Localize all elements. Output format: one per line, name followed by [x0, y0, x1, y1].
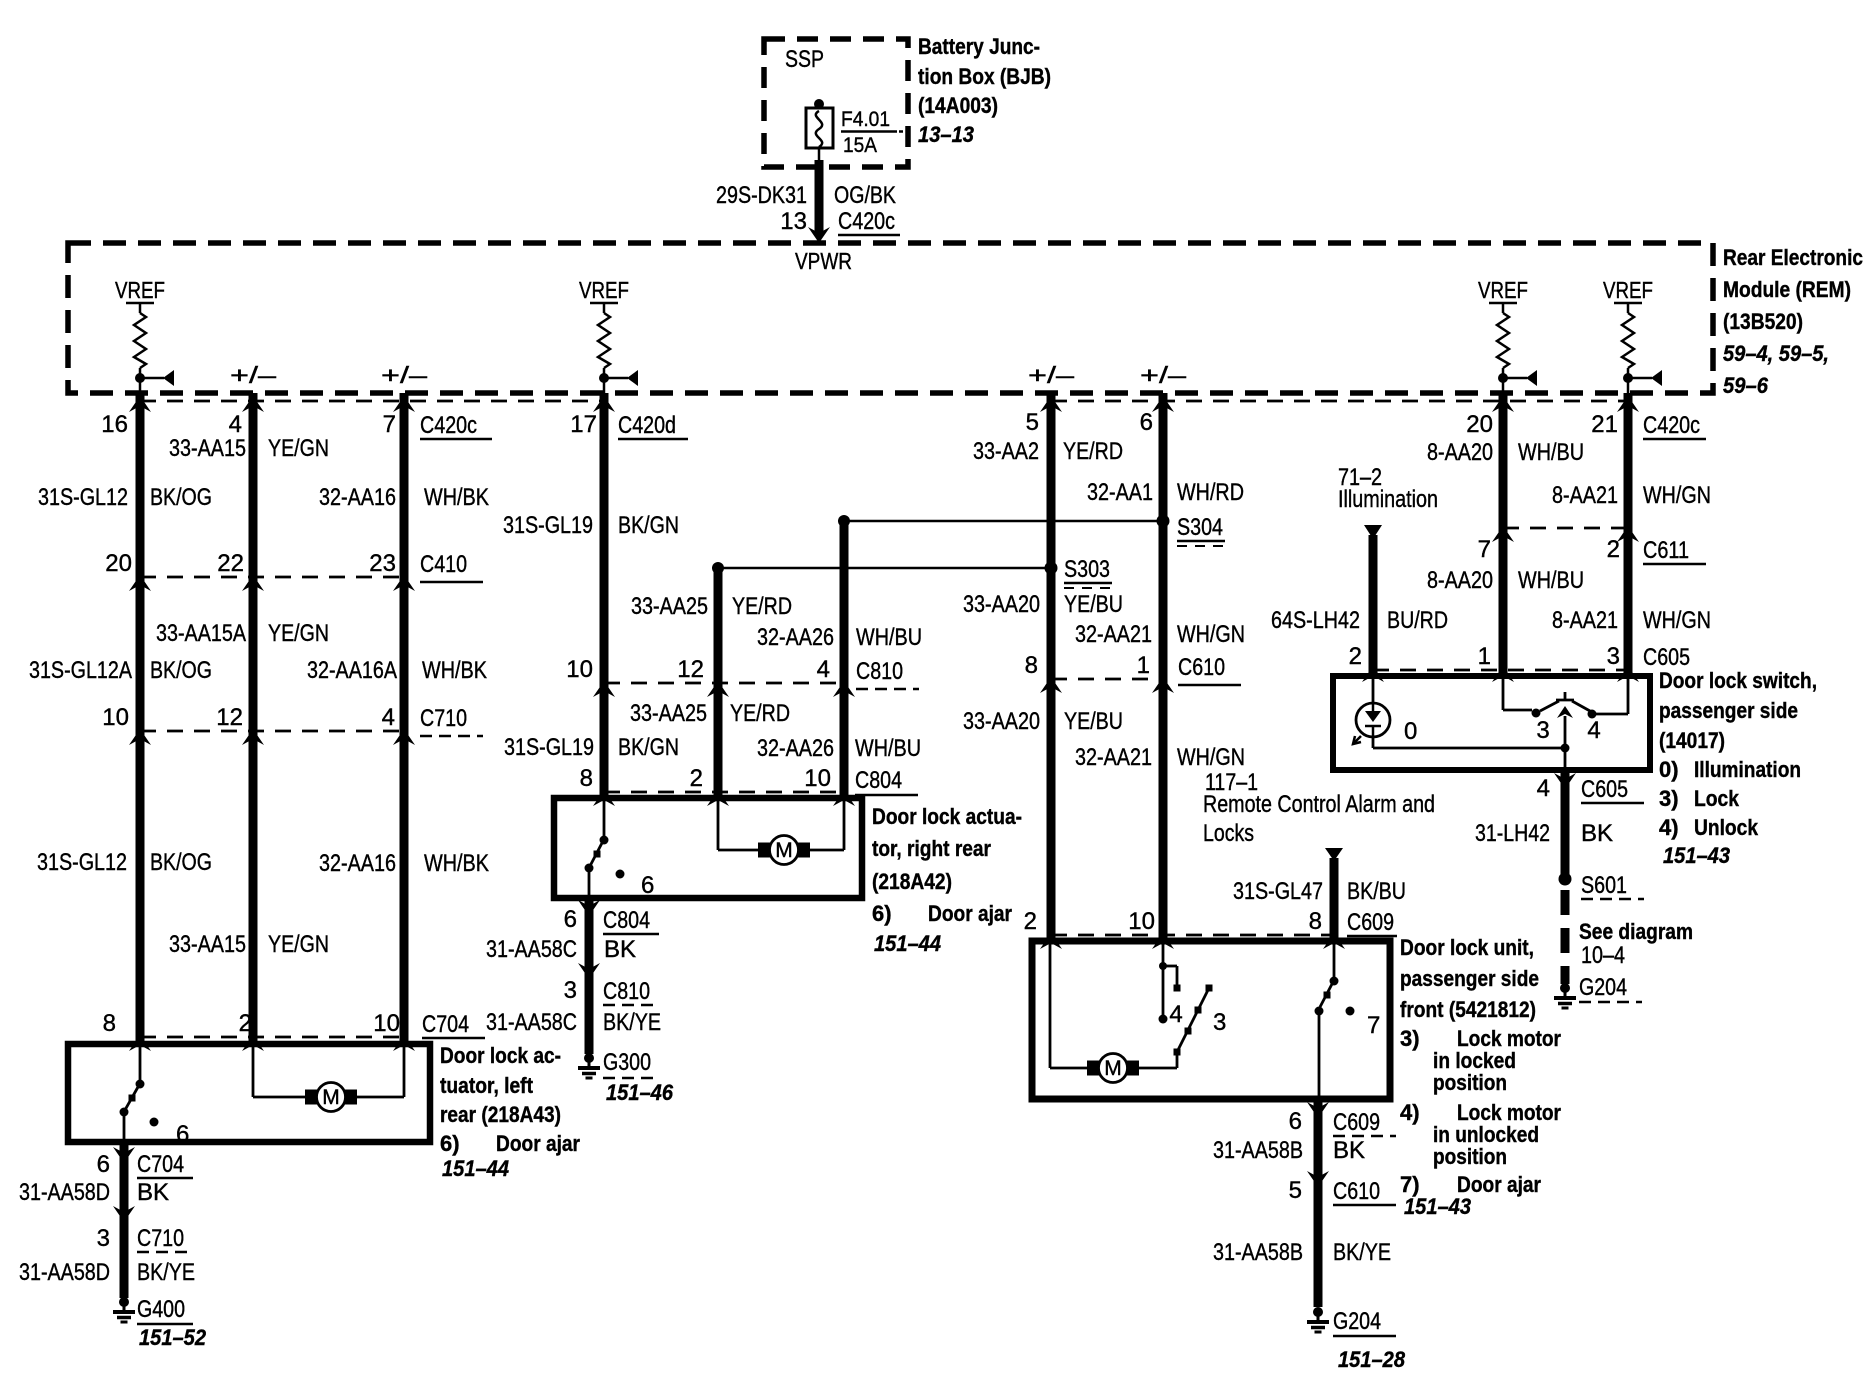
Rear Electronic Module (REM) dashed box [68, 243, 1713, 393]
BJB label text [918, 34, 1051, 147]
connector C610 pin arrow [1040, 677, 1062, 693]
svg-text:WH/BU: WH/BU [855, 735, 921, 762]
svg-text:32-AA16A: 32-AA16A [307, 657, 397, 684]
svg-text:BK/BU: BK/BU [1347, 878, 1406, 905]
svg-text:VPWR: VPWR [795, 248, 852, 274]
svg-text:4: 4 [1169, 1001, 1182, 1028]
svg-text:31S-GL47: 31S-GL47 [1233, 878, 1323, 905]
svg-text:4: 4 [1537, 775, 1550, 802]
svg-text:BK/YE: BK/YE [603, 1009, 661, 1036]
connector C609 pin arrow [1323, 933, 1345, 949]
svg-text:+/–: +/– [381, 362, 427, 388]
wire labels 31S-GL12A BK/OG, 32-AA16A WH/BK [29, 657, 487, 684]
svg-text:rear (218A43): rear (218A43) [440, 1102, 561, 1127]
wire 29S-DK31 OG/BK from fuse to VPWR [818, 148, 821, 236]
svg-text:6): 6) [872, 901, 892, 926]
connector C810 pin 3 arrow [578, 963, 600, 979]
svg-text:33-AA25: 33-AA25 [631, 593, 708, 620]
connector C710 pin arrow [242, 729, 264, 745]
svg-text:BK/YE: BK/YE [137, 1259, 195, 1286]
svg-text:C704: C704 [422, 1011, 469, 1038]
svg-text:3): 3) [1659, 786, 1679, 811]
connector C710 dashed line [140, 730, 404, 733]
wire labels 33-AA25 YE/RD [631, 593, 792, 620]
svg-text:8: 8 [103, 1010, 116, 1037]
svg-text:151–52: 151–52 [139, 1325, 207, 1350]
svg-text:OG/BK: OG/BK [834, 182, 896, 209]
svg-text:21: 21 [1591, 411, 1618, 438]
connector C410 pin arrow [242, 575, 264, 591]
svg-text:10–4: 10–4 [1581, 942, 1625, 969]
svg-text:31S-GL19: 31S-GL19 [504, 734, 594, 761]
wire 31-AA58C BK ground lead (middle) [585, 898, 594, 1054]
svg-text:BK: BK [604, 936, 636, 963]
door lock switch label text [1659, 668, 1817, 868]
svg-text:17: 17 [570, 411, 597, 438]
svg-text:32-AA16: 32-AA16 [319, 484, 396, 511]
wire 8-AA21 WH/GN (REM pin 21) [1624, 393, 1633, 676]
REM +/- driver output label [1140, 362, 1186, 388]
svg-text:Illumination: Illumination [1694, 757, 1801, 782]
wire 31S-GL47 BK/BU with terminal [1325, 848, 1343, 941]
svg-text:Door lock ac-: Door lock ac- [440, 1043, 561, 1068]
svg-text:S601: S601 [1581, 872, 1627, 899]
svg-text:3: 3 [564, 977, 577, 1004]
svg-text:C610: C610 [1178, 654, 1225, 681]
ground G300 [578, 1049, 674, 1105]
svg-text:6: 6 [1140, 409, 1153, 436]
connector C704 pin 6 arrow [113, 1147, 135, 1163]
pin labels C420c left: 16 4 7 [101, 411, 492, 439]
connector arrow into VPWR rail [808, 227, 830, 243]
wire labels 31S-GL19 BK/GN, 32-AA26 WH/BU (lower) [504, 734, 921, 762]
labels 3 C810 / 31-AA58C BK/YE [486, 977, 661, 1036]
svg-text:5: 5 [1026, 409, 1039, 436]
svg-text:BK: BK [1581, 820, 1613, 847]
connector C410 pin arrow [393, 575, 415, 591]
svg-text:8-AA20: 8-AA20 [1427, 439, 1493, 466]
node VPWR [795, 248, 852, 274]
svg-text:32-AA1: 32-AA1 [1087, 479, 1153, 506]
ground G204 (front) [1307, 1307, 1406, 1372]
door lock actuator, left rear (218A43) box [68, 1044, 430, 1142]
svg-text:6: 6 [564, 906, 577, 933]
wire labels 32-AA21 WH/GN [1075, 621, 1245, 648]
connector C611 dashed line [1503, 527, 1628, 530]
wire 32-AA16 WH/BK (REM pin 7 lock motor feed) [400, 393, 409, 1044]
connector C704 pin arrow [242, 1035, 264, 1051]
labels 6 C804 / 31-AA58C BK [486, 906, 659, 963]
wire labels 33-AA15A YE/GN [156, 620, 329, 647]
svg-text:13–13: 13–13 [918, 122, 974, 147]
svg-text:WH/GN: WH/GN [1643, 482, 1711, 509]
connector C610 pin arrow [1152, 677, 1174, 693]
pin labels 5 6 [1026, 409, 1153, 436]
svg-text:20: 20 [1466, 411, 1493, 438]
svg-text:BK/OG: BK/OG [150, 657, 212, 684]
svg-text:6: 6 [97, 1151, 110, 1178]
wire 31-AA58D BK ground lead (left) [120, 1142, 129, 1298]
pin labels C611: 7 2 [1478, 536, 1706, 564]
svg-text:YE/GN: YE/GN [268, 620, 329, 647]
wire 32-AA1/32-AA21 WH/RD-WH/GN (REM pin 6) [1159, 393, 1168, 941]
splice S601 [1559, 872, 1645, 899]
svg-text:Lock: Lock [1694, 786, 1740, 811]
connector C804 pin arrow [593, 790, 615, 806]
wire label 29S-DK31 13 / OG/BK C420c [716, 182, 900, 235]
connector C420d pin arrow [593, 396, 615, 412]
labels 6 C609 / 31-AA58B BK [1213, 1108, 1396, 1164]
svg-text:31S-GL12A: 31S-GL12A [29, 657, 132, 684]
door lock unit label text [1400, 935, 1561, 1219]
wire labels 33-AA2 YE/RD [973, 438, 1123, 465]
svg-text:32-AA16: 32-AA16 [319, 850, 396, 877]
svg-text:8: 8 [1025, 652, 1038, 679]
wire 8-AA20 WH/BU (REM pin 20) [1499, 393, 1508, 676]
svg-text:7: 7 [1478, 536, 1491, 563]
svg-text:(14A003): (14A003) [918, 93, 998, 118]
svg-text:4): 4) [1400, 1100, 1420, 1125]
pin labels C609: 2 10 8 [1024, 908, 1397, 936]
pin labels C610: 8 1 [1025, 652, 1241, 685]
svg-text:15A: 15A [843, 134, 877, 157]
svg-text:8-AA20: 8-AA20 [1427, 567, 1493, 594]
connector C609 dashed line [1051, 934, 1334, 937]
svg-text:+/–: +/– [230, 362, 276, 388]
svg-text:VREF: VREF [579, 277, 629, 303]
svg-text:Door lock actua-: Door lock actua- [872, 804, 1022, 829]
VREF pull-up resistor, REM pin 21 [1603, 277, 1662, 393]
svg-text:8: 8 [580, 765, 593, 792]
svg-text:passenger side: passenger side [1400, 966, 1539, 991]
connector C420c pin arrow [393, 396, 415, 412]
svg-text:WH/RD: WH/RD [1177, 479, 1244, 506]
connector C710 pin arrow [129, 729, 151, 745]
svg-text:31-AA58B: 31-AA58B [1213, 1239, 1303, 1266]
connector C410 pin arrow [129, 575, 151, 591]
splice S304 [1157, 514, 1226, 546]
svg-text:4): 4) [1659, 815, 1679, 840]
connector C605 pin 4 arrow [1554, 773, 1576, 789]
svg-text:Unlock: Unlock [1694, 815, 1759, 840]
svg-text:C605: C605 [1643, 644, 1690, 671]
svg-text:C420c: C420c [1643, 412, 1700, 439]
labels 3 C710 / 31-AA58D BK/YE [19, 1225, 195, 1286]
svg-text:BK/YE: BK/YE [1333, 1239, 1391, 1266]
svg-text:1: 1 [1137, 652, 1150, 679]
svg-text:33-AA15: 33-AA15 [169, 931, 246, 958]
svg-text:31-AA58C: 31-AA58C [486, 936, 577, 963]
svg-text:WH/GN: WH/GN [1177, 744, 1245, 771]
connector C605 dashed line [1373, 669, 1628, 672]
svg-text:YE/BU: YE/BU [1064, 591, 1123, 618]
svg-text:151–44: 151–44 [874, 931, 941, 956]
wire labels 8-AA21 WH/GN (lower) [1552, 607, 1711, 634]
wire labels 8-AA21 WH/GN [1552, 482, 1711, 509]
svg-text:Door lock unit,: Door lock unit, [1400, 935, 1534, 960]
wire 33-AA25 YE/RD from splice branch [714, 568, 723, 798]
connector line C420c/C420d below REM (left) [140, 400, 604, 403]
wire labels 8-AA20 WH/BU (lower) [1427, 567, 1584, 594]
svg-text:3: 3 [1607, 643, 1620, 670]
svg-text:8-AA21: 8-AA21 [1552, 607, 1618, 634]
svg-text:tuator, left: tuator, left [440, 1073, 534, 1098]
svg-text:3: 3 [1213, 1009, 1226, 1036]
pin labels C804: 8 2 10 [580, 765, 918, 795]
svg-text:12: 12 [216, 704, 243, 731]
svg-text:(13B520): (13B520) [1723, 309, 1803, 334]
svg-text:C710: C710 [137, 1225, 184, 1252]
svg-text:2: 2 [1349, 643, 1362, 670]
connector C704 dashed line [140, 1036, 404, 1039]
wire labels 31S-GL12 BK/OG, 32-AA16 WH/BK [38, 484, 489, 511]
wire 32-AA26 WH/BU from splice branch [840, 521, 849, 798]
svg-text:YE/GN: YE/GN [268, 931, 329, 958]
connector C610 dashed line [1051, 678, 1163, 681]
svg-text:31S-GL12: 31S-GL12 [37, 849, 127, 876]
svg-text:151–44: 151–44 [442, 1156, 509, 1181]
svg-text:SSP: SSP [785, 46, 824, 73]
svg-text:32-AA21: 32-AA21 [1075, 744, 1152, 771]
wire labels 64S-LH42 BU/RD [1271, 607, 1448, 634]
door ajar switch contact 6 (right rear) [585, 798, 655, 899]
svg-text:3: 3 [1536, 717, 1549, 744]
svg-text:10: 10 [373, 1010, 400, 1037]
svg-text:6: 6 [176, 1121, 189, 1148]
pin labels C710: 10 12 4 [102, 704, 483, 736]
svg-text:8: 8 [1309, 908, 1322, 935]
svg-text:position: position [1433, 1070, 1507, 1095]
svg-text:151–43: 151–43 [1404, 1194, 1471, 1219]
connector C611 pin arrow [1617, 526, 1639, 542]
svg-text:7: 7 [1367, 1012, 1380, 1039]
svg-text:WH/BU: WH/BU [1518, 567, 1584, 594]
svg-text:33-AA20: 33-AA20 [963, 591, 1040, 618]
svg-text:1: 1 [1478, 643, 1491, 670]
connector C710 pin arrow [393, 729, 415, 745]
connector C420c pin arrow (right) [1492, 396, 1514, 412]
VREF pull-up resistor, REM pin 16 [115, 277, 174, 393]
door ajar switch contact 7 (front) [1315, 941, 1381, 1099]
svg-text:31-LH42: 31-LH42 [1475, 820, 1550, 847]
svg-text:6): 6) [440, 1131, 460, 1156]
svg-text:Module (REM): Module (REM) [1723, 277, 1851, 302]
svg-text:C420d: C420d [618, 412, 676, 439]
svg-text:BK: BK [1333, 1137, 1365, 1164]
svg-text:4: 4 [817, 656, 830, 683]
svg-text:2: 2 [239, 1010, 252, 1037]
connector C810 dashed line [604, 682, 844, 685]
connector C710 pin 3 arrow [113, 1206, 135, 1222]
svg-text:10: 10 [566, 656, 593, 683]
splice line to S303 [712, 562, 1051, 574]
ground G400 [113, 1296, 207, 1350]
labels 6 C704 / 31-AA58D BK [19, 1151, 193, 1206]
svg-text:Door lock switch,: Door lock switch, [1659, 668, 1817, 693]
REM +/- driver output label [381, 362, 427, 388]
svg-text:31-AA58C: 31-AA58C [486, 1009, 577, 1036]
connector C609 pin arrow [1040, 933, 1062, 949]
svg-text:7: 7 [383, 411, 396, 438]
wire 31S-GL12 BK/OG (REM pin 16 to door ajar switch) [136, 393, 145, 1044]
svg-text:C605: C605 [1581, 776, 1628, 803]
VREF pull-up resistor, REM pin 20 [1478, 277, 1537, 393]
svg-text:32-AA26: 32-AA26 [757, 624, 834, 651]
connector C611 pin arrow [1492, 526, 1514, 542]
svg-text:S303: S303 [1064, 556, 1110, 583]
svg-text:C804: C804 [855, 767, 902, 794]
pin labels C420c right: 20 21 [1466, 411, 1706, 439]
wire labels 8-AA20 WH/BU [1427, 439, 1584, 466]
illumination feed 71-2 label [1338, 464, 1438, 513]
svg-text:Battery Junc-: Battery Junc- [918, 34, 1040, 59]
svg-text:2: 2 [1607, 536, 1620, 563]
svg-text:WH/GN: WH/GN [1643, 607, 1711, 634]
svg-text:BU/RD: BU/RD [1387, 607, 1448, 634]
connector C810 pin arrow [833, 681, 855, 697]
svg-text:C610: C610 [1333, 1178, 1380, 1205]
module 117-1 Remote Control Alarm and Locks label [1203, 769, 1435, 847]
svg-text:5: 5 [1289, 1177, 1302, 1204]
svg-text:31S-GL19: 31S-GL19 [503, 512, 593, 539]
motor M right rear actuator [718, 798, 844, 865]
connector C605 pin arrow [1492, 666, 1514, 682]
svg-text:2: 2 [690, 765, 703, 792]
svg-text:31-AA58D: 31-AA58D [19, 1179, 110, 1206]
svg-text:C804: C804 [603, 907, 650, 934]
svg-text:4: 4 [229, 411, 242, 438]
svg-text:Locks: Locks [1203, 820, 1254, 847]
svg-text:Door ajar: Door ajar [496, 1131, 580, 1156]
svg-text:G300: G300 [603, 1049, 651, 1076]
svg-text:0): 0) [1659, 757, 1679, 782]
connector line C420c below REM (right) [1051, 400, 1628, 403]
connector C605 pin arrow [1617, 666, 1639, 682]
VREF pull-up resistor, REM pin 17 [579, 277, 638, 393]
splice line to S304 [838, 515, 1163, 527]
svg-text:C710: C710 [420, 705, 467, 732]
svg-text:C611: C611 [1643, 537, 1689, 564]
svg-text:WH/BU: WH/BU [856, 624, 922, 651]
svg-text:G204: G204 [1579, 974, 1627, 1001]
svg-text:31S-GL12: 31S-GL12 [38, 484, 128, 511]
svg-text:BK/GN: BK/GN [618, 512, 679, 539]
svg-text:59–6: 59–6 [1723, 373, 1769, 398]
pin labels C810: 10 12 4 [566, 656, 919, 689]
connector C810 pin arrow [593, 681, 615, 697]
svg-text:front (5421812): front (5421812) [1400, 997, 1536, 1022]
svg-text:Door ajar: Door ajar [928, 901, 1012, 926]
svg-text:13: 13 [780, 208, 807, 235]
wire labels 33-AA15 YE/GN (lower) [169, 931, 329, 958]
wire labels 31S-GL12 BK/OG, 32-AA16 WH/BK (lower) [37, 849, 489, 877]
svg-text:C410: C410 [420, 551, 467, 578]
connector C410 dashed line [140, 576, 404, 579]
svg-text:C810: C810 [856, 658, 903, 685]
left rear actuator label text [440, 1043, 580, 1181]
svg-text:YE/BU: YE/BU [1064, 708, 1123, 735]
right rear actuator label text [872, 804, 1022, 956]
svg-text:+/–: +/– [1140, 362, 1186, 388]
wire labels 33-AA25 YE/RD (lower) [630, 700, 790, 727]
svg-text:G204: G204 [1333, 1308, 1381, 1335]
svg-text:YE/RD: YE/RD [1063, 438, 1123, 465]
svg-text:C609: C609 [1347, 909, 1394, 936]
svg-text:G400: G400 [137, 1296, 185, 1323]
svg-text:4: 4 [382, 704, 395, 731]
svg-text:tor, right rear: tor, right rear [872, 836, 991, 861]
svg-text:M: M [775, 839, 793, 862]
svg-text:6: 6 [1289, 1108, 1302, 1135]
svg-text:+/–: +/– [1028, 362, 1074, 388]
connector C420c pin arrow [129, 396, 151, 412]
door ajar switch contact 6 (left rear) [120, 1044, 190, 1148]
wire 33-AA15 YE/GN (REM pin 4 lock motor feed) [249, 393, 258, 1044]
svg-text:YE/GN: YE/GN [268, 435, 329, 462]
connector C420c pin arrow (right) [1617, 396, 1639, 412]
battery junction box SSP (BJB) dashed enclosure [764, 39, 908, 167]
svg-text:(218A42): (218A42) [872, 869, 952, 894]
labels 4 C605 / 31-LH42 BK [1475, 775, 1644, 847]
svg-text:Remote Control Alarm and: Remote Control Alarm and [1203, 791, 1435, 818]
svg-text:12: 12 [677, 656, 704, 683]
connector C420c pin arrow [242, 396, 264, 412]
door lock unit, passenger side front (5421812) box [1032, 941, 1390, 1099]
svg-text:F4.01: F4.01 [841, 108, 890, 131]
pin label C420d: 17 [570, 411, 688, 439]
svg-text:23: 23 [369, 550, 396, 577]
svg-text:3: 3 [97, 1225, 110, 1252]
wire 33-AA2/33-AA20 YE/RD-YE/BU (REM pin 5) [1047, 393, 1056, 941]
svg-text:32-AA21: 32-AA21 [1075, 621, 1152, 648]
pin labels C704: 8 2 10 [103, 1010, 485, 1038]
svg-text:33-AA25: 33-AA25 [630, 700, 707, 727]
wire labels 32-AA1 WH/RD [1087, 479, 1244, 506]
svg-text:BK/OG: BK/OG [150, 484, 212, 511]
svg-text:2: 2 [1024, 908, 1037, 935]
connector C610 pin 5 arrow [1307, 1171, 1329, 1187]
svg-text:151–28: 151–28 [1338, 1347, 1406, 1372]
svg-text:Illumination: Illumination [1338, 486, 1438, 513]
svg-text:32-AA26: 32-AA26 [757, 735, 834, 762]
motor M left rear actuator [253, 1044, 404, 1112]
pin labels C605: 2 1 3 [1349, 643, 1690, 671]
svg-text:3): 3) [1400, 1026, 1420, 1051]
REM +/- driver output label [230, 362, 276, 388]
svg-text:22: 22 [217, 550, 244, 577]
connector C704 pin arrow [393, 1035, 415, 1051]
lock position switch blade 3/4 [1159, 941, 1227, 1056]
svg-text:passenger side: passenger side [1659, 698, 1798, 723]
svg-text:VREF: VREF [115, 277, 165, 303]
svg-text:YE/RD: YE/RD [732, 593, 792, 620]
svg-text:8-AA21: 8-AA21 [1552, 482, 1618, 509]
svg-text:position: position [1433, 1144, 1507, 1169]
wire labels 31S-GL47 BK/BU [1233, 878, 1406, 905]
svg-text:(14017): (14017) [1659, 728, 1725, 753]
illumination LED 0 [1353, 676, 1417, 748]
lock/unlock rocker switch 3-4 [1373, 676, 1628, 770]
wire labels 32-AA21 WH/GN (lower) [1075, 744, 1245, 771]
svg-text:VREF: VREF [1603, 277, 1653, 303]
door lock actuator, right rear (218A42) box [554, 798, 862, 898]
fuse F4.01 15A [806, 99, 909, 157]
off-page wire to G204 (dashed) [1561, 890, 1570, 984]
svg-text:VREF: VREF [1478, 277, 1528, 303]
svg-text:M: M [322, 1086, 340, 1109]
svg-text:59–4, 59–5,: 59–4, 59–5, [1723, 341, 1829, 366]
svg-text:WH/BK: WH/BK [424, 850, 489, 877]
